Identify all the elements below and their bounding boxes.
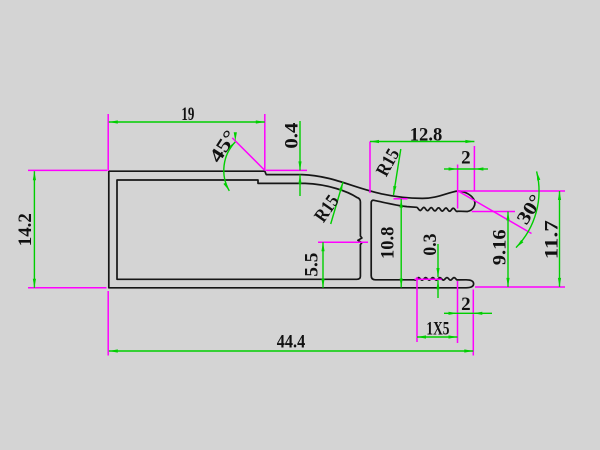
ext 19 right (264, 114, 266, 171)
45deg line (232, 138, 264, 171)
ext 12.8 left (369, 142, 371, 194)
30deg line (458, 191, 532, 234)
dim 1X5 (417, 336, 458, 338)
ext 12.8 right (473, 146, 475, 191)
ext hook top (458, 190, 565, 192)
ext 14.2 top (28, 169, 107, 171)
dim 12.8 (370, 141, 474, 143)
ext 0.3 (415, 278, 442, 280)
profile inner cavity (117, 180, 362, 279)
ext 0.4 (266, 169, 307, 171)
svg-text:14.2: 14.2 (15, 213, 36, 246)
leader R15 right (394, 149, 401, 195)
svg-text:2: 2 (461, 294, 471, 315)
dim 44.4 (109, 350, 474, 352)
ext 5.5 (318, 241, 368, 243)
svg-text:9.16: 9.16 (490, 229, 511, 265)
dim 2 top (444, 168, 458, 170)
svg-text:0.3: 0.3 (420, 234, 441, 256)
svg-text:10.8: 10.8 (377, 227, 398, 259)
dim 2 bottom (444, 312, 458, 314)
arc 45deg (224, 142, 236, 191)
dim 11.7 (559, 191, 561, 287)
svg-text:2: 2 (461, 147, 471, 168)
ext bottom right (475, 286, 565, 288)
dim 19 (109, 121, 265, 123)
svg-text:19: 19 (181, 104, 194, 125)
dim 14.2 (33, 171, 35, 288)
ext 19 left (107, 114, 109, 171)
profile outline outer (109, 171, 475, 288)
arc arrows 45 (228, 142, 235, 150)
svg-text:44.4: 44.4 (277, 331, 306, 352)
svg-text:11.7: 11.7 (542, 220, 563, 260)
svg-text:12.8: 12.8 (410, 125, 443, 146)
ext 2top left (457, 165, 459, 209)
ext 10.8 top (394, 198, 408, 200)
ext 44.4 left (107, 291, 109, 356)
ext 14.2 bottom (28, 287, 107, 289)
arc arrows 30 (537, 171, 541, 180)
arc 30deg (516, 171, 539, 247)
dim 0.3 (437, 244, 439, 277)
ext 9.16 top (472, 211, 515, 213)
ext 44.4 right (472, 290, 474, 356)
svg-text:1X5: 1X5 (426, 318, 449, 339)
svg-text:5.5: 5.5 (302, 253, 323, 277)
dim 10.8 (400, 199, 402, 288)
ext 2bot left (457, 281, 459, 343)
dim 5.5 (322, 242, 324, 288)
ext 1X5 left (416, 277, 418, 342)
dim 0.4 (299, 121, 301, 170)
dim 9.16 (507, 212, 509, 287)
leader R15 left (331, 182, 343, 224)
svg-text:0.4: 0.4 (282, 122, 303, 149)
